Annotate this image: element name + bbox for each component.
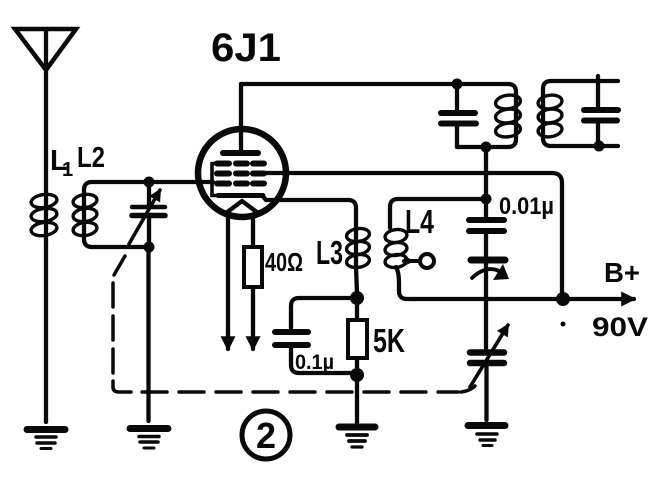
svg-text:1: 1 xyxy=(62,159,73,181)
svg-text:2: 2 xyxy=(256,415,276,456)
wire screen to B+ xyxy=(264,173,562,294)
node B+ junction xyxy=(556,292,570,306)
capacitor IF secondary xyxy=(584,76,618,146)
svg-text:6J1: 6J1 xyxy=(211,26,281,70)
node junction bottom xyxy=(144,242,155,253)
svg-text:40Ω: 40Ω xyxy=(265,247,303,277)
tube V1 6J1 xyxy=(198,84,286,217)
svg-text:0.01µ: 0.01µ xyxy=(499,193,554,220)
wire tuning junction to ground xyxy=(146,247,150,421)
speck xyxy=(561,322,566,327)
node plate junction xyxy=(452,79,463,90)
antenna xyxy=(15,29,76,194)
wire junction to ground xyxy=(355,375,359,424)
coil IF secondary xyxy=(537,81,618,146)
resistor 5K xyxy=(348,298,367,375)
dashed gang line xyxy=(113,256,475,392)
resistor 40ohm xyxy=(244,216,262,349)
svg-text:B+: B+ xyxy=(604,257,640,288)
wire B+ bus xyxy=(415,297,634,301)
svg-text:L2: L2 xyxy=(77,142,105,174)
node IF primary bottom xyxy=(481,142,492,153)
wire grid xyxy=(149,180,213,184)
node IF secondary bottom xyxy=(594,141,605,152)
ground (tuning cap) xyxy=(130,429,168,449)
coil L1 xyxy=(30,193,58,240)
tap terminal of L4 xyxy=(404,254,434,268)
capacitor 0.01u plates xyxy=(469,199,504,257)
capacitor IF primary xyxy=(441,84,476,147)
ground (variable cap) xyxy=(468,426,505,446)
wire plate to top xyxy=(241,82,451,86)
ground (cathode) xyxy=(339,427,375,447)
node detector junction xyxy=(481,194,492,205)
svg-text:5K: 5K xyxy=(373,322,405,359)
node grid junction top xyxy=(144,177,155,188)
svg-text:L3: L3 xyxy=(316,234,343,271)
ground (antenna coil) xyxy=(27,430,65,449)
variable capacitor C4 xyxy=(470,325,508,387)
svg-text:90V: 90V xyxy=(592,312,648,342)
capacitor 0.1u xyxy=(275,332,357,373)
node L3 bottom junction xyxy=(350,291,364,305)
coil L2 xyxy=(72,182,149,247)
coil IF primary xyxy=(457,84,521,147)
coil L4 xyxy=(384,199,486,299)
svg-text:L4: L4 xyxy=(405,203,434,240)
svg-text:0.1µ: 0.1µ xyxy=(295,351,334,374)
wire trimmer to variable cap xyxy=(484,263,488,348)
wire variable cap to ground xyxy=(484,366,488,420)
node cathode ground junction xyxy=(350,368,364,382)
wire antenna coil to ground xyxy=(44,240,48,422)
wire suppressor arrow xyxy=(226,212,230,349)
coil L3 xyxy=(346,227,371,293)
variable capacitor C1 xyxy=(129,182,165,247)
wire IF primary to detector node xyxy=(484,147,488,199)
figure number 2 xyxy=(242,411,290,459)
wire junction to bypass cap xyxy=(291,298,357,328)
wire tube cathode to L3 xyxy=(262,196,356,229)
trimmer capacitor plate xyxy=(471,260,509,280)
